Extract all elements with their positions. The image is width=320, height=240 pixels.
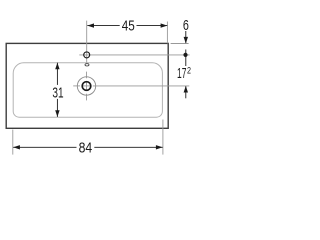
svg-text:2: 2 [187, 66, 191, 77]
drain outer circle [77, 77, 95, 95]
centerline faucet horizontal to dot [79, 54, 189, 56]
extension line faucet vertical [86, 21, 88, 63]
centerline drain vertical [86, 72, 88, 79]
washbasin outer outline [6, 43, 168, 128]
wire [82, 85, 90, 87]
svg-text:6: 6 [183, 18, 189, 34]
extension line right edge vertical (45 dim) [166, 22, 168, 44]
shared dimension dot 6/17 [185, 50, 187, 67]
dimension 84 left arrow [13, 145, 20, 149]
svg-text:31: 31 [52, 85, 63, 101]
overflow slot [85, 64, 89, 66]
svg-text:45: 45 [122, 18, 135, 34]
dimension 17 arrow up [185, 86, 187, 98]
dimension 84 right arrow [156, 145, 163, 149]
drain waste ring [82, 82, 91, 91]
extension line 84 left [12, 130, 14, 155]
extension line top edge horizontal (6 dim) [171, 43, 189, 45]
dimension 31 line [56, 63, 58, 117]
dimension 6 arrow down [185, 31, 187, 43]
wire [86, 94, 88, 101]
svg-text:84: 84 [79, 140, 93, 156]
dimension 45 right arrow [161, 23, 168, 27]
svg-text:17: 17 [177, 66, 186, 82]
extension line 84 right [162, 120, 164, 155]
dimension 45 left arrow [87, 23, 94, 27]
basin inner bowl outline [13, 63, 162, 117]
dimension 84 line [13, 146, 162, 148]
dimension 31 up arrow [55, 63, 59, 70]
wire [93, 85, 190, 87]
faucet hole [84, 52, 90, 58]
centerline drain horizontal to 17 dim [73, 85, 80, 87]
wire [86, 82, 88, 90]
dimension 45 line [87, 25, 167, 27]
dimension 31 down arrow [55, 110, 59, 117]
